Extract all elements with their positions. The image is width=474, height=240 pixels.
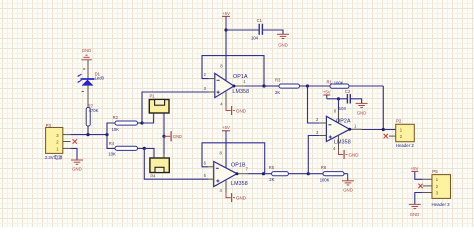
svg-text:P4: P4 <box>150 174 156 179</box>
node output junction <box>382 128 385 131</box>
wire +5V down to OP1A pin 8 <box>225 30 227 80</box>
wire node up to OP2A pin 3 <box>308 136 319 174</box>
svg-text:100K: 100K <box>334 81 344 86</box>
no-connect X on P5 pin 2 <box>418 184 422 188</box>
wire P5 pin 3 to GND <box>415 193 423 205</box>
wire +5V to C2 node <box>327 98 339 100</box>
node +5V/C2/pin8 junction <box>337 97 340 100</box>
op-amp OP1B LM358 <box>204 151 249 194</box>
svg-text:104: 104 <box>251 35 259 40</box>
power port GND (bar, OP1B pin 4) <box>226 193 247 202</box>
wire C1 to GND <box>262 30 283 34</box>
wire P1 right pin down <box>163 113 165 136</box>
node R7/bus junction <box>86 133 89 136</box>
svg-text:C2: C2 <box>345 89 351 94</box>
wire R7 to bus <box>87 126 89 135</box>
svg-text:GND: GND <box>236 196 247 201</box>
sensor P1 <box>149 94 169 118</box>
node P1/P4/GND junction <box>162 135 165 138</box>
svg-text:470K: 470K <box>89 108 99 113</box>
svg-text:P3: P3 <box>46 123 52 128</box>
node fork junction <box>105 133 108 136</box>
svg-text:C1: C1 <box>257 18 263 23</box>
svg-text:100K: 100K <box>320 177 330 182</box>
wire node to P4 left pin <box>144 148 154 158</box>
svg-text:OP2A: OP2A <box>336 118 351 124</box>
node OP1A output junction <box>262 84 265 87</box>
svg-text:2K: 2K <box>269 177 274 182</box>
resistor R2 10K <box>112 115 142 132</box>
svg-text:LM358: LM358 <box>334 139 351 145</box>
resistor R1 100K <box>308 79 384 88</box>
wire OP1B feedback loop <box>202 143 265 174</box>
wire node A up and across to OP1A pin 3 <box>142 92 209 123</box>
power port GND (bar, OP2A pin 4) <box>339 150 360 159</box>
LED D1 Led0 <box>77 71 104 85</box>
wire P5 pin 1 to +5V <box>415 171 423 179</box>
svg-text:2K: 2K <box>275 90 280 95</box>
wire OP1A output to node <box>245 85 264 87</box>
resistor R4 10K <box>108 141 144 156</box>
node A (R2/P1/op-amp input junction) <box>140 121 143 124</box>
node R3/R1 junction <box>306 84 309 87</box>
svg-text:GND: GND <box>357 111 367 116</box>
svg-text:R3: R3 <box>275 78 281 83</box>
wire bus P3 pin3 to fork <box>71 134 107 136</box>
resistor R5 2K <box>264 165 309 182</box>
svg-text:+5V: +5V <box>411 166 419 171</box>
power port GND (right of C1) <box>277 34 289 47</box>
sensor P4 <box>150 154 169 179</box>
wire OP1A feedback loop <box>202 56 264 86</box>
svg-text:104: 104 <box>339 106 347 111</box>
op-amp OP2A LM358 <box>316 108 362 150</box>
svg-text:R2: R2 <box>113 115 119 120</box>
wire LED to R7 <box>82 86 88 108</box>
svg-text:OP1A: OP1A <box>233 74 248 80</box>
svg-text:GND: GND <box>343 188 353 193</box>
svg-text:Header 2: Header 2 <box>396 143 415 148</box>
svg-text:LM358: LM358 <box>232 89 249 95</box>
wire node down to OP2A pin 2 <box>308 86 320 123</box>
svg-text:OP1B: OP1B <box>231 162 246 168</box>
svg-text:GND: GND <box>278 43 288 48</box>
svg-text:+5V: +5V <box>222 11 230 16</box>
connector P3 3.3V电源 <box>45 123 71 161</box>
svg-text:10K: 10K <box>112 127 120 132</box>
resistor R7 470K <box>86 103 98 126</box>
resistor R3 2K <box>264 78 308 95</box>
wire C2 to GND <box>350 99 361 104</box>
op-amp OP1A LM358 <box>204 64 250 107</box>
power port GND (below P3) <box>71 160 83 172</box>
no-connect X on P3 pin 2 <box>73 139 77 143</box>
svg-text:P2: P2 <box>396 119 402 124</box>
svg-text:GND: GND <box>82 48 92 53</box>
svg-text:R4: R4 <box>109 141 115 146</box>
power port GND (top, above D1) <box>81 48 91 63</box>
svg-text:10K: 10K <box>108 152 116 157</box>
power port GND (right of R8) <box>342 174 354 193</box>
wire node down to OP2A pin 8 <box>338 99 340 123</box>
svg-text:R5: R5 <box>269 165 275 170</box>
svg-text:+5V: +5V <box>222 125 230 130</box>
svg-text:3.3V电源: 3.3V电源 <box>45 154 63 161</box>
power port GND (below C2) <box>356 103 368 115</box>
svg-text:GND: GND <box>349 152 360 157</box>
wire R1 right side down to output node <box>382 86 384 130</box>
wire P3 pin 1 to GND <box>71 148 77 160</box>
svg-text:+5V: +5V <box>323 89 331 94</box>
power port GND (bar, between P1 and P4) <box>164 131 182 141</box>
connector P2 Header 2 <box>389 119 415 148</box>
wire node down and across to OP1B pin 5 <box>144 148 208 179</box>
power port +5V (top) <box>222 11 230 30</box>
connector P5 Header 3 <box>423 169 451 207</box>
node +5V/C1 junction <box>224 28 227 31</box>
resistor R8 100K <box>308 165 347 182</box>
wire fork vertical <box>107 123 115 148</box>
node OP1B output junction <box>262 172 265 175</box>
svg-text:GND: GND <box>173 134 182 139</box>
wire node to C1 <box>226 29 259 31</box>
wire output node to P2 pin 1 <box>383 129 395 131</box>
svg-text:Header 3: Header 3 <box>432 202 451 207</box>
power port GND (below P5) <box>409 204 421 216</box>
wire OP1B output to node <box>248 173 264 175</box>
wire OP2A output to node <box>362 129 384 131</box>
wire GND to LED D1 <box>83 61 88 80</box>
svg-text:GND: GND <box>72 167 82 172</box>
power port +5V (P5 pin 1) <box>411 166 419 172</box>
svg-text:LM358: LM358 <box>231 181 248 187</box>
svg-text:Led0: Led0 <box>95 76 105 81</box>
wire GND node down to P4 top pin <box>163 136 165 158</box>
svg-text:R8: R8 <box>321 165 327 170</box>
power port GND (bar, OP1A pin 4) <box>226 106 247 115</box>
svg-text:GND: GND <box>236 108 247 113</box>
svg-text:P5: P5 <box>432 169 438 174</box>
node R4/P4 junction <box>143 147 146 150</box>
wire +5V down to OP1B pin 8 <box>225 138 227 168</box>
svg-text:P1: P1 <box>150 94 156 99</box>
svg-text:R1: R1 <box>327 79 333 84</box>
wire node A to P1 left pin <box>142 113 154 123</box>
capacitor C2 104 <box>339 89 351 111</box>
power port +5V (middle) <box>222 125 230 138</box>
power port +5V (right, above OP2A) <box>323 89 331 98</box>
no-connect X on P2 pin 2 <box>384 134 388 138</box>
node R5/R8 junction <box>307 172 310 175</box>
svg-text:GND: GND <box>410 212 420 217</box>
capacitor C1 104 <box>251 18 263 40</box>
